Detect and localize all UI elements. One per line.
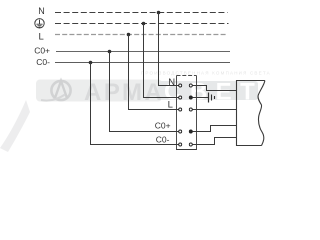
svg-text:C0-: C0- [156, 134, 170, 144]
wire: L terminal to luminaire [193, 109, 237, 111]
junction on N bus [157, 11, 161, 15]
svg-text:АРМА: АРМА [84, 79, 164, 106]
wire: N bus (dashed) [55, 12, 228, 14]
pin C0- left [179, 143, 182, 146]
wire: C0+ drop to terminal X1 [110, 52, 179, 132]
pin PE left [179, 96, 182, 99]
svg-text:L: L [39, 32, 44, 43]
wire: C0- terminal to luminaire [193, 138, 237, 145]
wire: PE bus (dashed) [55, 23, 229, 25]
pin N right [189, 84, 192, 87]
pin L right [189, 108, 192, 111]
pin C0+ right [189, 130, 192, 133]
wire: PE drop to terminal X1 [144, 24, 179, 98]
svg-text:N: N [38, 6, 45, 16]
junction on C0+ bus [108, 50, 112, 54]
luminaire body (partial, torn edge) [237, 81, 265, 146]
junction on PE bus [142, 22, 146, 26]
watermark (decorative) [0, 71, 271, 153]
pin N left [179, 84, 182, 87]
junction on L bus [127, 33, 131, 37]
svg-text:C0+: C0+ [34, 45, 50, 55]
svg-text:L: L [168, 100, 173, 111]
wire: C0- bus [55, 62, 230, 64]
terminal block X1 [177, 76, 197, 150]
pin C0- right [189, 143, 192, 146]
pin PE right [189, 96, 192, 99]
wire: L drop to terminal X1 [129, 35, 179, 110]
wire: C0- drop to terminal X1 [91, 63, 179, 145]
wire: C0+ bus [56, 51, 230, 53]
svg-text:N: N [168, 77, 175, 88]
wire: N drop to terminal X1 [159, 13, 179, 86]
PE earth symbol (circle) [35, 19, 44, 28]
pin L left [179, 108, 182, 111]
wire: L bus (dashed grey) [55, 34, 228, 36]
pin C0+ left [179, 130, 182, 133]
svg-text:СВЕТ: СВЕТ [164, 79, 263, 106]
junction on C0- bus [89, 61, 93, 65]
wire: N terminal to luminaire [193, 86, 237, 91]
wire: C0+ terminal to luminaire [193, 126, 237, 132]
earth symbol at luminaire [209, 93, 215, 103]
wire: PE terminal to earth [193, 97, 209, 99]
svg-text:C0-: C0- [36, 57, 50, 67]
svg-text:C0+: C0+ [155, 121, 171, 131]
svg-text:ПРОИЗВОДСТВЕННАЯ КОМПАНИЯ СВЕТ: ПРОИЗВОДСТВЕННАЯ КОМПАНИЯ СВЕТА [141, 71, 271, 76]
